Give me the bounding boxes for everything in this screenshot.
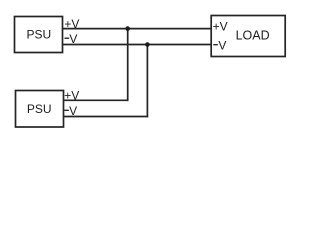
svg-text:V: V: [69, 104, 77, 118]
LOAD box: [211, 16, 285, 57]
wire PSU2 -V vertical riser: [146, 45, 148, 118]
svg-text:+V: +V: [64, 88, 79, 102]
wire PSU2 +V horizontal: [63, 99, 129, 101]
svg-text:V: V: [69, 32, 77, 46]
svg-text:LOAD: LOAD: [236, 29, 270, 43]
PSU box 2 (bottom left): [16, 91, 64, 128]
svg-text:+V: +V: [64, 17, 79, 31]
junction dot -V node: [145, 42, 150, 47]
label -V (PSU1 pin): [65, 37, 70, 39]
label -V (LOAD pin): [213, 44, 218, 46]
PSU box 1 (top left): [15, 17, 63, 53]
wire PSU2 +V vertical riser: [127, 29, 129, 102]
wire +V bus (PSU1 to LOAD): [63, 28, 212, 30]
wire -V bus (PSU1 to LOAD): [63, 44, 212, 46]
svg-text:V: V: [218, 38, 226, 52]
svg-text:+V: +V: [213, 20, 228, 34]
wire PSU2 -V horizontal: [63, 116, 148, 118]
svg-text:PSU: PSU: [27, 102, 52, 116]
svg-text:PSU: PSU: [26, 27, 51, 41]
label -V (PSU2 pin): [64, 109, 69, 111]
junction dot +V node: [125, 26, 130, 31]
